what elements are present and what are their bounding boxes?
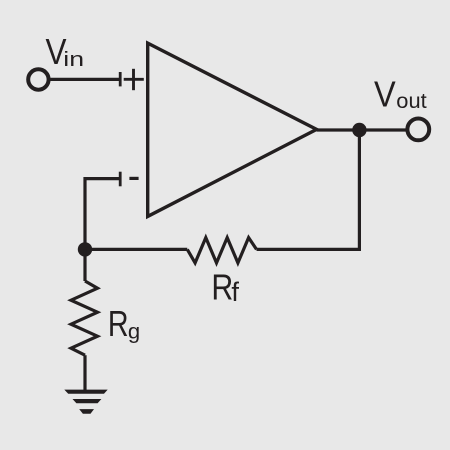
wire node A to Rf (85, 248, 187, 251)
svg-text:R: R (211, 266, 233, 307)
ground (64, 390, 107, 414)
node B junction dot (352, 123, 366, 137)
svg-text:out: out (396, 90, 427, 113)
wire inverting input horizontal (85, 179, 119, 250)
terminal Vin (28, 69, 48, 89)
svg-text:in: in (63, 49, 84, 71)
label Vin (46, 31, 85, 72)
svg-text:g: g (128, 320, 140, 344)
wire Rg to ground (83, 355, 86, 391)
svg-text:f: f (231, 277, 239, 307)
svg-text:R: R (108, 303, 129, 344)
label Rg (108, 303, 140, 344)
wire Rf to feedback corner (257, 130, 360, 249)
wire Vin to non-inverting input (51, 78, 120, 81)
wire node A to Rg (83, 249, 86, 281)
label Vout (374, 74, 427, 115)
label Rf (211, 266, 239, 307)
plus symbol (124, 69, 144, 90)
node A junction dot (78, 242, 92, 256)
resistor Rg (71, 281, 98, 355)
minus symbol (129, 177, 138, 180)
resistor Rf (187, 238, 256, 263)
op-amp U1 (148, 43, 317, 216)
svg-text:V: V (374, 74, 396, 115)
pin tick non-inverting input (119, 72, 122, 86)
wire output (317, 128, 406, 131)
pin tick inverting input (119, 172, 122, 187)
terminal Vout (407, 118, 429, 140)
